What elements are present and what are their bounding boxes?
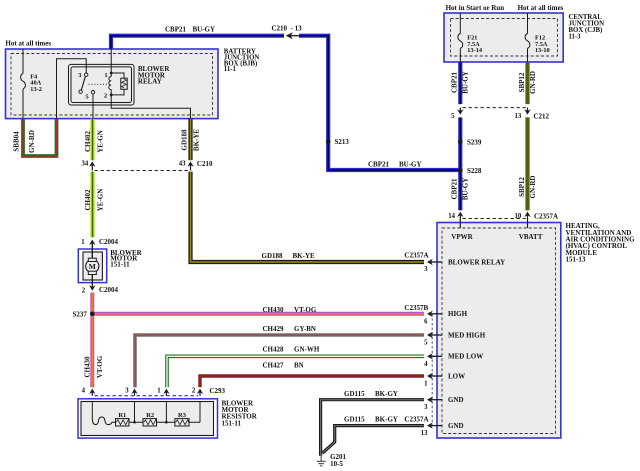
svg-text:3: 3 xyxy=(424,266,428,273)
svg-text:YE-GN: YE-GN xyxy=(96,130,104,153)
svg-text:151-11: 151-11 xyxy=(222,419,242,427)
svg-text:BLOWER RELAY: BLOWER RELAY xyxy=(448,258,505,266)
svg-text:VBATT: VBATT xyxy=(519,233,543,241)
svg-text:6: 6 xyxy=(424,319,428,326)
svg-text:GN-RD: GN-RD xyxy=(529,71,537,94)
svg-text:5: 5 xyxy=(451,113,455,120)
svg-text:C210 - 13: C210 - 13 xyxy=(272,25,303,33)
svg-text:CBP21: CBP21 xyxy=(368,160,390,168)
svg-text:BK-YE: BK-YE xyxy=(193,129,201,152)
svg-text:S228: S228 xyxy=(467,167,482,175)
svg-text:GN-WH: GN-WH xyxy=(294,345,320,353)
svg-text:Hot at all times: Hot at all times xyxy=(5,39,51,47)
svg-text:CH430: CH430 xyxy=(263,306,285,314)
svg-text:M: M xyxy=(89,262,96,271)
svg-text:BU-GY: BU-GY xyxy=(399,160,422,168)
svg-text:C2357A: C2357A xyxy=(404,416,428,424)
svg-text:R2: R2 xyxy=(146,412,154,419)
svg-text:GN-RD: GN-RD xyxy=(28,130,36,153)
svg-text:RELAY: RELAY xyxy=(138,78,162,86)
svg-text:151-13: 151-13 xyxy=(566,256,586,264)
svg-text:CH429: CH429 xyxy=(263,325,285,333)
svg-text:BU-GY: BU-GY xyxy=(193,25,216,33)
svg-text:C2357A: C2357A xyxy=(534,212,558,220)
svg-text:LOW: LOW xyxy=(448,372,465,380)
svg-text:CH427: CH427 xyxy=(263,361,285,369)
svg-text:10: 10 xyxy=(515,213,522,220)
svg-text:C2357B: C2357B xyxy=(404,304,428,312)
svg-text:BK-YE: BK-YE xyxy=(293,252,316,260)
svg-text:13-2: 13-2 xyxy=(30,86,42,93)
svg-text:5: 5 xyxy=(424,340,428,347)
svg-text:GND: GND xyxy=(448,422,464,430)
svg-text:C2357A: C2357A xyxy=(404,252,428,260)
svg-text:GD115: GD115 xyxy=(344,416,365,424)
svg-text:GD188: GD188 xyxy=(262,252,284,260)
svg-text:1: 1 xyxy=(81,239,85,246)
svg-text:C212: C212 xyxy=(534,112,550,120)
svg-text:CH428: CH428 xyxy=(263,345,285,353)
svg-text:11-1: 11-1 xyxy=(224,66,237,73)
svg-text:C293: C293 xyxy=(209,387,225,395)
svg-text:CBP21: CBP21 xyxy=(450,72,458,94)
svg-text:151-11: 151-11 xyxy=(110,261,130,269)
svg-text:GD115: GD115 xyxy=(344,390,365,398)
svg-text:VT-OG: VT-OG xyxy=(294,306,317,314)
svg-text:MED LOW: MED LOW xyxy=(448,353,483,361)
svg-text:VT-OG: VT-OG xyxy=(96,355,104,378)
svg-text:GY-BN: GY-BN xyxy=(294,325,316,333)
svg-text:S213: S213 xyxy=(335,138,350,146)
svg-text:CBP21: CBP21 xyxy=(450,178,458,200)
svg-text:1: 1 xyxy=(424,381,428,388)
svg-text:2: 2 xyxy=(82,287,86,294)
svg-text:GND: GND xyxy=(448,396,464,404)
svg-text:Hot in Start or Run: Hot in Start or Run xyxy=(446,4,505,12)
svg-text:HIGH: HIGH xyxy=(448,310,468,318)
svg-text:BU-GY: BU-GY xyxy=(461,71,469,94)
svg-text:BN: BN xyxy=(294,361,304,369)
svg-text:SBP12: SBP12 xyxy=(518,177,526,197)
svg-text:1: 1 xyxy=(104,72,107,79)
svg-text:MED HIGH: MED HIGH xyxy=(448,331,486,339)
svg-text:S239: S239 xyxy=(467,138,482,146)
svg-text:S237: S237 xyxy=(73,311,88,319)
svg-text:14: 14 xyxy=(448,213,455,220)
svg-text:R1: R1 xyxy=(118,412,126,419)
svg-text:SBB04: SBB04 xyxy=(12,131,20,152)
svg-text:SBP12: SBP12 xyxy=(518,72,526,92)
svg-text:R3: R3 xyxy=(178,412,187,419)
svg-text:3: 3 xyxy=(125,387,129,394)
svg-text:13-10: 13-10 xyxy=(535,47,550,54)
svg-text:13: 13 xyxy=(421,430,428,437)
svg-text:13-14: 13-14 xyxy=(467,47,483,54)
svg-text:YE-GN: YE-GN xyxy=(96,189,104,212)
svg-text:3: 3 xyxy=(424,404,428,411)
svg-text:4: 4 xyxy=(82,387,86,394)
svg-text:BK-GY: BK-GY xyxy=(375,416,398,424)
svg-text:13: 13 xyxy=(515,113,522,120)
svg-text:CH402: CH402 xyxy=(84,189,92,211)
svg-text:C2004: C2004 xyxy=(99,286,119,294)
svg-text:C210: C210 xyxy=(197,160,213,168)
svg-text:11-3: 11-3 xyxy=(569,33,582,40)
svg-text:4: 4 xyxy=(424,361,428,368)
svg-text:43: 43 xyxy=(179,160,186,167)
svg-text:2: 2 xyxy=(104,93,107,100)
svg-text:GN-RD: GN-RD xyxy=(529,176,537,199)
svg-text:CBP21: CBP21 xyxy=(165,25,187,33)
svg-text:VPWR: VPWR xyxy=(451,233,473,241)
svg-text:2: 2 xyxy=(192,387,196,394)
svg-text:BU-GY: BU-GY xyxy=(461,178,469,201)
svg-text:BK-GY: BK-GY xyxy=(375,390,398,398)
svg-text:C2004: C2004 xyxy=(99,238,119,246)
svg-text:GD188: GD188 xyxy=(180,129,188,151)
svg-text:Hot at all times: Hot at all times xyxy=(518,4,564,12)
svg-text:34: 34 xyxy=(82,160,89,167)
svg-text:CH402: CH402 xyxy=(84,131,92,153)
svg-text:CH430: CH430 xyxy=(83,356,91,378)
svg-text:1: 1 xyxy=(157,387,161,394)
svg-text:10-5: 10-5 xyxy=(330,460,343,468)
